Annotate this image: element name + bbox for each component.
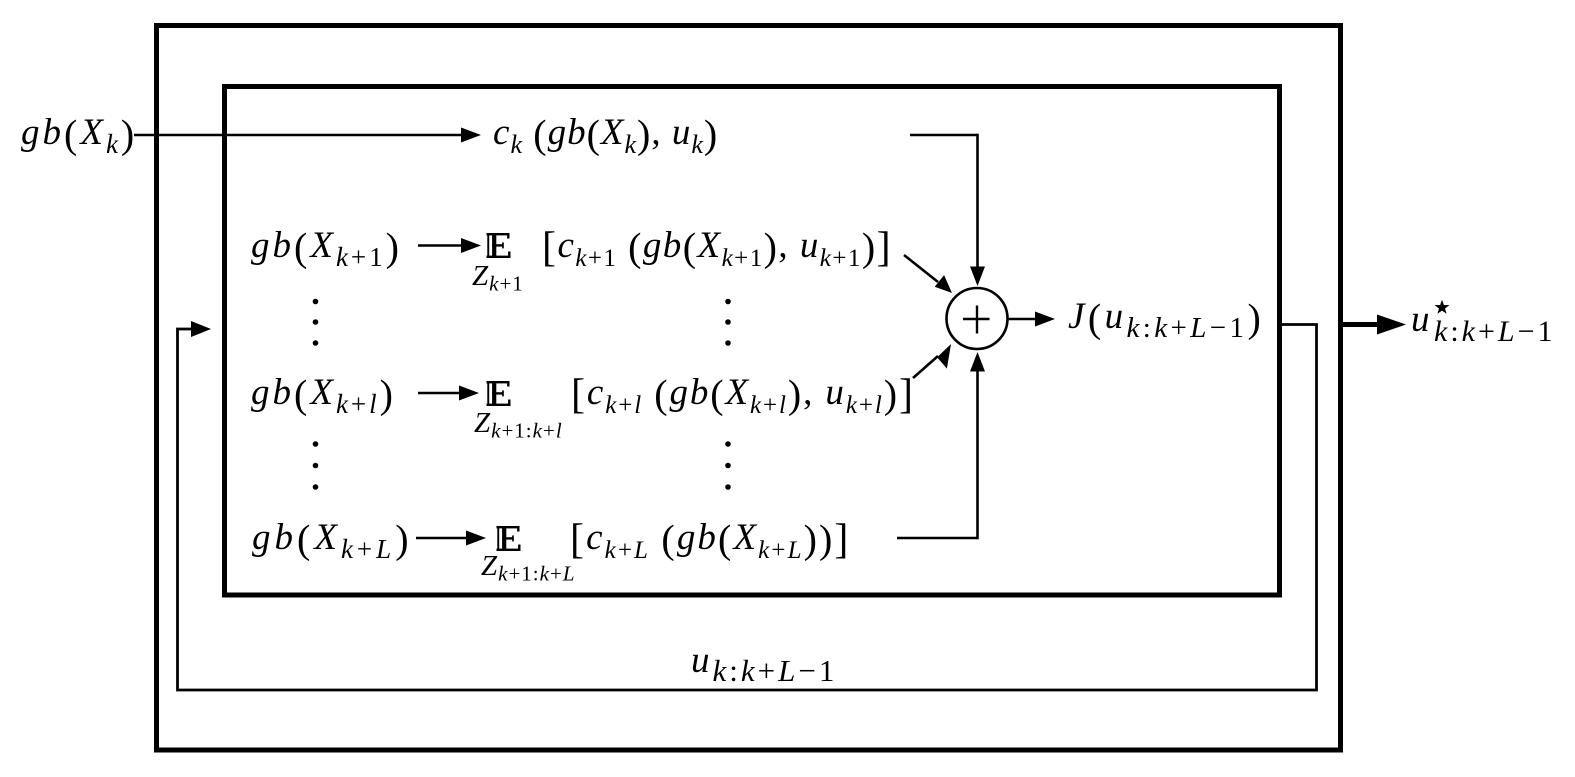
wire gb(X_k+l) to E block row 3: [418, 386, 479, 401]
svg-text:ck​ (​gb(​Xk​)​, uk​)​: ck​ (​gb(​Xk​)​, uk​)​: [493, 112, 718, 160]
svg-text:gb(​Xk+L​)​: gb(​Xk+L​)​: [252, 517, 413, 565]
svg-text:uk:k+L−1​: uk:k+L−1​: [691, 640, 837, 688]
summation node (+): [947, 288, 1008, 349]
wire E row4 to summation node: [897, 352, 985, 539]
svg-text:Zk+1:k+L​: Zk+1:k+L​: [481, 550, 576, 586]
wire E row2 to summation node (diagonal): [904, 255, 952, 293]
dots column middle lower: [725, 441, 731, 490]
output arrow from outer box: [1343, 315, 1406, 335]
svg-text:u: u: [1411, 299, 1430, 340]
dots column middle upper: [725, 299, 731, 346]
svg-text:Zk+1​: Zk+1​: [472, 260, 524, 296]
wire gb(X_k+L) to E block row 4: [416, 531, 486, 546]
dots column left lower: [313, 441, 319, 490]
expectation operator E row 4: [497, 526, 521, 551]
wire E row3 to summation node (diagonal): [913, 344, 951, 378]
output label u*_k:k+L-1: [1411, 299, 1556, 348]
svg-text:gb(​Xk​)​: gb(​Xk​)​: [21, 112, 137, 160]
svg-text:[​ck+l​ (​gb(​Xk+l​)​, uk+l​)​: [​ck+l​ (​gb(​Xk+l​)​, uk+l​)​]​: [571, 372, 915, 420]
expectation operator E row 3: [487, 381, 511, 406]
svg-text:[​ck+L​ (​gb(​Xk+L​))​]​: [​ck+L​ (​gb(​Xk+L​))​]​: [570, 517, 851, 565]
svg-text:gb(​Xk+l​)​: gb(​Xk+l​)​: [251, 372, 396, 420]
dots column left upper: [313, 299, 319, 346]
wire c_k to summation node: [910, 134, 985, 286]
wire summation to J: [1008, 312, 1055, 327]
svg-text:J(​uk:k+L−1​)​: J(​uk:k+L−1​)​: [1068, 296, 1264, 345]
feedback loop wire from J out back to inner box input: [178, 321, 1317, 690]
svg-text:[​ck+1​ (​gb(​Xk+1​)​, uk+1​)​: [​ck+1​ (​gb(​Xk+1​)​, uk+1​)​]​: [542, 225, 892, 273]
svg-text:gb(​Xk+1​)​: gb(​Xk+1​)​: [251, 225, 402, 273]
expectation operator E row 2: [487, 233, 511, 258]
svg-text:k:k+L−1: k:k+L−1: [1434, 315, 1556, 348]
svg-text:Zk+1:k+l​: Zk+1:k+l​: [474, 407, 563, 443]
outer box (optimizer block): [157, 26, 1341, 751]
inner box (cost evaluation block): [225, 87, 1280, 596]
wire gb(X_k+1) to E block row 2: [418, 238, 481, 253]
wire gb(X_k) to c_k: [134, 128, 481, 143]
